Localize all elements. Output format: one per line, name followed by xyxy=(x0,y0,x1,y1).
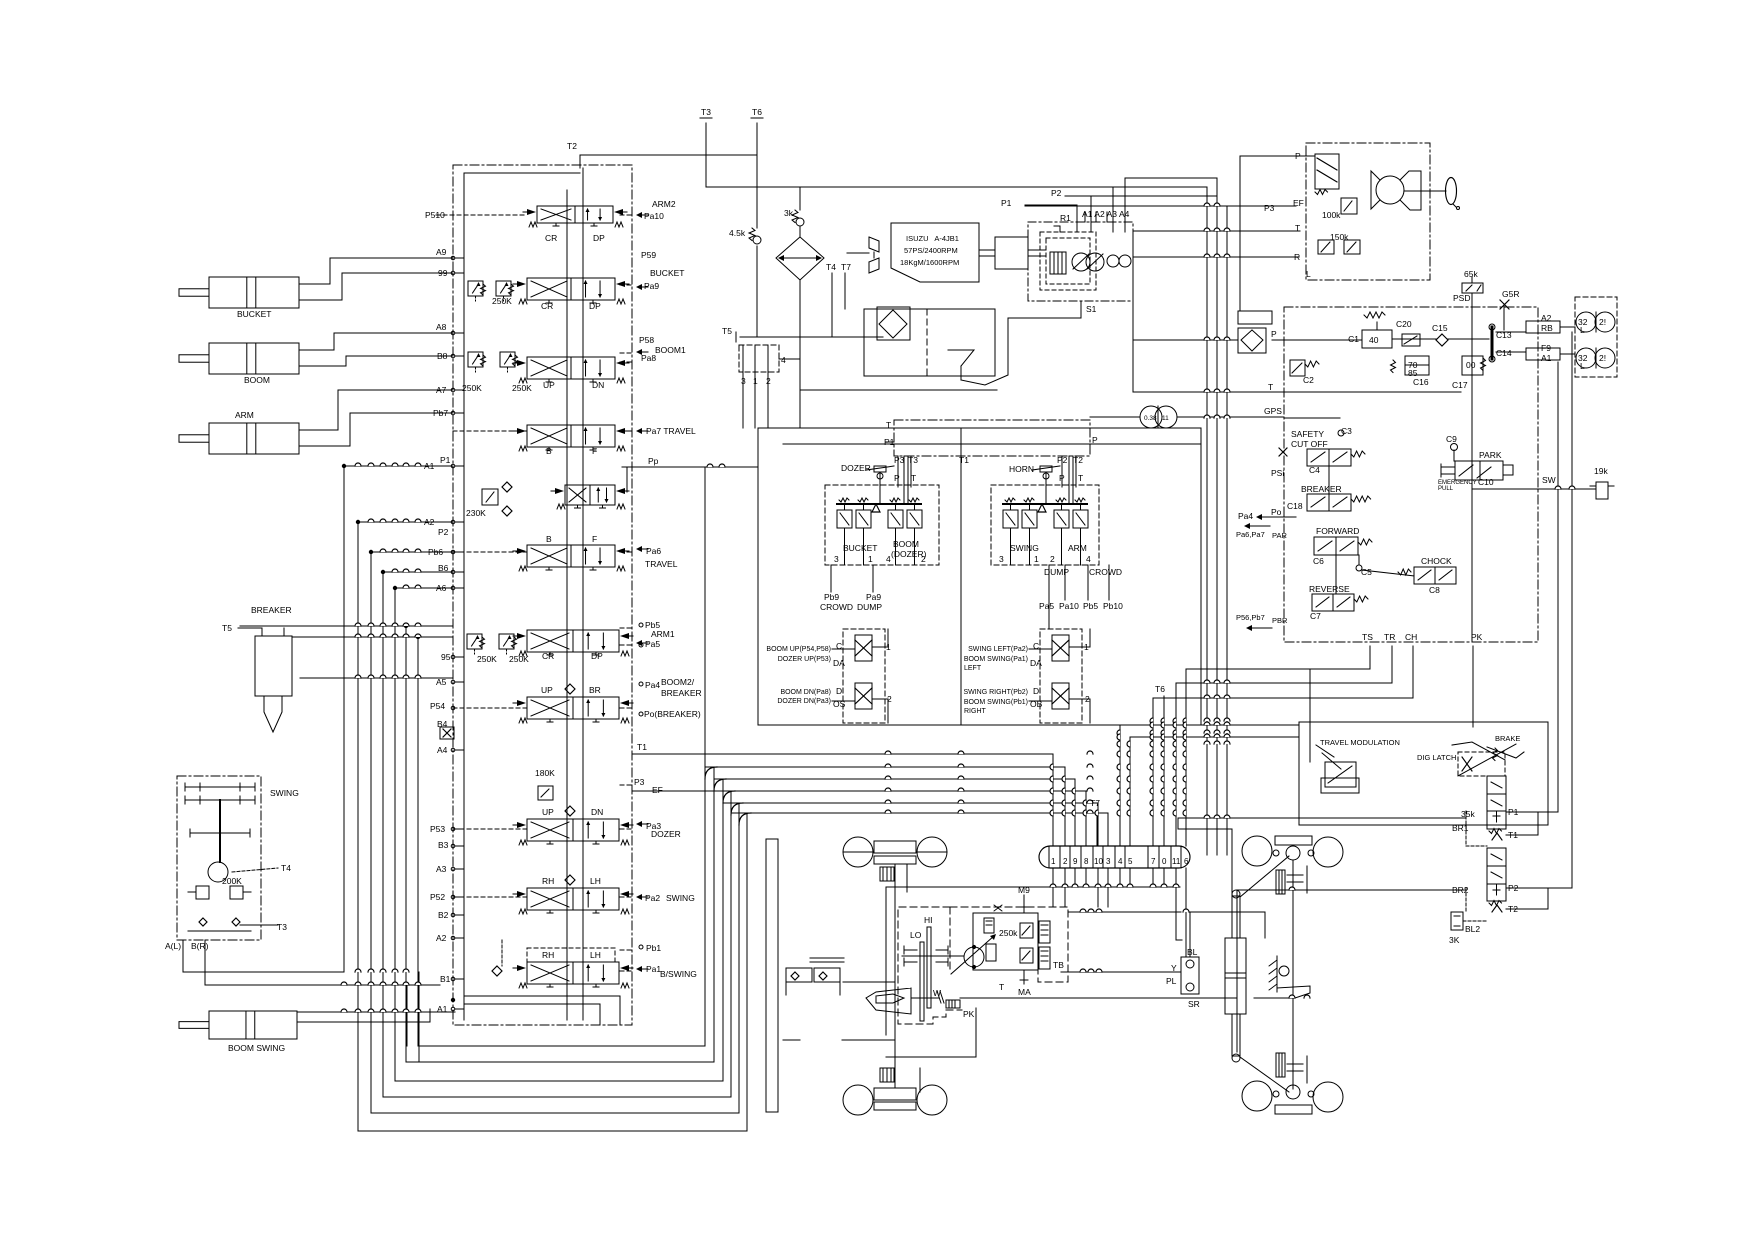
svg-text:PL: PL xyxy=(1166,976,1177,986)
rear gearbox top xyxy=(1276,870,1285,894)
svg-text:11: 11 xyxy=(1172,857,1181,866)
svg-text:Pa4: Pa4 xyxy=(645,680,660,690)
svg-text:P510: P510 xyxy=(425,210,445,220)
svg-text:Pb7: Pb7 xyxy=(433,408,448,418)
wire manifold verticals xyxy=(1472,646,1474,727)
hydraulic tank xyxy=(864,309,995,376)
svg-text:230K: 230K xyxy=(466,508,486,518)
svg-text:P54: P54 xyxy=(430,701,445,711)
wire pedal link xyxy=(843,981,895,983)
svg-text:C20: C20 xyxy=(1396,319,1412,329)
pilot valve right box xyxy=(991,485,1099,565)
wire P1 brake xyxy=(1506,811,1558,813)
svg-text:Pb6: Pb6 xyxy=(428,547,443,557)
wire GPS rail xyxy=(1284,417,1340,419)
wire PK drop xyxy=(886,1008,976,1057)
travel motor box xyxy=(1575,297,1617,377)
svg-text:B6: B6 xyxy=(438,563,449,573)
wire T7 drop xyxy=(1096,811,1098,846)
wire Pa4 arrow xyxy=(1250,525,1270,527)
wire T steering return xyxy=(1133,230,1300,232)
svg-text:P53: P53 xyxy=(430,824,445,834)
swing motor xyxy=(208,862,228,882)
wire C4-C18 link xyxy=(1328,466,1330,494)
svg-text:A1 A2 A3: A1 A2 A3 xyxy=(1082,209,1117,219)
svg-text:RIGHT: RIGHT xyxy=(964,708,987,715)
svg-text:A2: A2 xyxy=(424,517,435,527)
svg-text:C10: C10 xyxy=(1478,477,1494,487)
svg-text:2: 2 xyxy=(887,694,892,704)
svg-text:RB: RB xyxy=(1541,323,1553,333)
svg-text:T: T xyxy=(1078,473,1083,483)
svg-text:Po: Po xyxy=(1271,507,1282,517)
gauge 0.38-11 xyxy=(1140,406,1162,428)
wire PSD drop xyxy=(1471,307,1473,642)
wire BR1 to axle xyxy=(1178,818,1466,896)
svg-text:BRAKE: BRAKE xyxy=(1495,734,1520,743)
wire pump A4 lines xyxy=(1112,187,1114,232)
svg-text:T6: T6 xyxy=(752,107,762,117)
svg-text:L: L xyxy=(1580,361,1585,371)
rear axle shaft xyxy=(1292,860,1294,1089)
svg-text:CR: CR xyxy=(542,651,554,661)
svg-text:SWING LEFT(Pa2): SWING LEFT(Pa2) xyxy=(968,646,1028,653)
svg-text:C4: C4 xyxy=(1309,465,1320,475)
svg-text:A3: A3 xyxy=(436,864,447,874)
svg-text:DP: DP xyxy=(589,301,601,311)
svg-text:BREAKER: BREAKER xyxy=(251,605,292,615)
svg-text:1: 1 xyxy=(1084,642,1089,652)
joystick DOZER xyxy=(879,473,881,504)
junction dots feeders xyxy=(342,464,345,467)
gear bar LO xyxy=(920,942,924,1021)
svg-text:OB: OB xyxy=(1030,699,1043,709)
svg-text:A6: A6 xyxy=(436,583,447,593)
valve ARM2 spool xyxy=(537,206,613,223)
wire port feeders xyxy=(344,465,453,467)
svg-text:2: 2 xyxy=(1063,857,1068,866)
wire pump P1 line xyxy=(1025,205,1077,232)
svg-text:EF: EF xyxy=(652,785,663,795)
svg-text:ARM: ARM xyxy=(1068,543,1087,553)
valve BOOM-SWING spool xyxy=(527,962,619,984)
pump P1 xyxy=(1072,253,1090,271)
brake valve BR2 xyxy=(1487,848,1506,901)
svg-text:40: 40 xyxy=(1369,335,1379,345)
svg-text:T7: T7 xyxy=(841,262,851,272)
tank suction strainer xyxy=(948,350,974,366)
svg-text:CROWD: CROWD xyxy=(1089,567,1122,577)
svg-text:3: 3 xyxy=(1106,857,1111,866)
svg-text:BOOM1: BOOM1 xyxy=(655,345,686,355)
svg-text:18KgM/1600RPM: 18KgM/1600RPM xyxy=(900,258,959,267)
svg-text:C7: C7 xyxy=(1310,611,1321,621)
svg-text:4: 4 xyxy=(781,355,786,365)
valve C20 xyxy=(1402,334,1420,346)
wire trans left vertical xyxy=(885,887,887,1035)
wire manifold bottom rails xyxy=(1310,668,1370,670)
svg-text:DOZER: DOZER xyxy=(651,829,681,839)
svg-text:P1: P1 xyxy=(440,455,451,465)
svg-text:P2: P2 xyxy=(1057,455,1068,465)
svg-text:REVERSE: REVERSE xyxy=(1309,584,1350,594)
svg-text:B8: B8 xyxy=(437,351,448,361)
svg-text:C8: C8 xyxy=(1429,585,1440,595)
svg-text:Pa10: Pa10 xyxy=(644,211,664,221)
svg-text:T2: T2 xyxy=(567,141,577,151)
wire P supply xyxy=(783,443,1201,445)
rear kingpin bottom xyxy=(1286,1085,1300,1099)
svg-text:W: W xyxy=(933,988,941,998)
valve C7 reverse xyxy=(1312,594,1354,611)
wire bundle A xyxy=(632,753,1053,755)
wire bundle right rails xyxy=(1120,724,1299,726)
wire block bottom feeders xyxy=(464,996,620,1025)
wire A(L) line xyxy=(183,971,344,973)
wire pilot drops xyxy=(903,456,905,504)
svg-text:F9: F9 xyxy=(1541,343,1551,353)
svg-text:C: C xyxy=(1033,641,1039,651)
svg-text:BREAKER: BREAKER xyxy=(661,688,702,698)
wire M9 xyxy=(1023,895,1025,913)
swing gear train xyxy=(185,786,255,788)
svg-text:BR1: BR1 xyxy=(1452,823,1469,833)
svg-text:P2: P2 xyxy=(438,527,449,537)
wire A5 bus xyxy=(300,677,453,679)
svg-text:Pa9: Pa9 xyxy=(866,592,881,602)
svg-text:BOOM: BOOM xyxy=(244,375,270,385)
svg-text:250K: 250K xyxy=(462,383,482,393)
wire port stubs xyxy=(455,257,464,259)
svg-text:UP: UP xyxy=(542,807,554,817)
svg-text:BOOM SWING(Pb1): BOOM SWING(Pb1) xyxy=(964,699,1028,706)
steering control valve xyxy=(1315,154,1339,189)
svg-text:R: R xyxy=(1294,252,1300,262)
svg-text:Pa5: Pa5 xyxy=(1039,601,1054,611)
svg-text:R1: R1 xyxy=(1060,213,1071,223)
svg-text:B: B xyxy=(546,534,552,544)
svg-text:P1: P1 xyxy=(1001,198,1012,208)
svg-text:A8: A8 xyxy=(436,322,447,332)
steering link bottom xyxy=(1240,1057,1289,1092)
breaker xyxy=(255,636,292,696)
wire T rail xyxy=(1133,391,1461,393)
svg-text:S1: S1 xyxy=(1086,304,1097,314)
shuttle valve boom up xyxy=(855,635,872,661)
valve BOOM1 spools xyxy=(468,352,483,367)
svg-text:T6: T6 xyxy=(1155,684,1165,694)
svg-text:T: T xyxy=(886,420,891,430)
svg-text:T3: T3 xyxy=(701,107,711,117)
transmission box xyxy=(898,907,962,1024)
wire tank bottom xyxy=(800,389,997,391)
svg-text:Pa9: Pa9 xyxy=(644,281,659,291)
brake pedal plate xyxy=(1254,986,1310,998)
steering valves 150k xyxy=(1318,240,1334,254)
svg-text:P58: P58 xyxy=(639,335,654,345)
crossing jumps xyxy=(1050,764,1053,770)
svg-text:T7: T7 xyxy=(1090,798,1100,808)
svg-text:LH: LH xyxy=(590,950,601,960)
svg-text:CR: CR xyxy=(541,301,553,311)
svg-text:BOOM UP(P54,P58): BOOM UP(P54,P58) xyxy=(766,646,831,653)
relief 230K xyxy=(482,489,498,505)
wire C6-C7 link xyxy=(1335,555,1337,594)
svg-text:100k: 100k xyxy=(1322,210,1341,220)
svg-text:P: P xyxy=(1271,329,1277,339)
svg-text:DN: DN xyxy=(592,380,604,390)
svg-text:LEFT: LEFT xyxy=(964,665,982,672)
wire swing ports xyxy=(182,940,184,972)
svg-text:250K: 250K xyxy=(492,296,512,306)
svg-text:T5: T5 xyxy=(722,326,732,336)
svg-text:10: 10 xyxy=(1094,857,1103,866)
valve travel modulation xyxy=(1325,762,1356,787)
svg-text:T2: T2 xyxy=(1508,904,1518,914)
svg-text:B4: B4 xyxy=(437,719,448,729)
port boxes A2 RB FB A1 xyxy=(1526,321,1560,333)
svg-text:4.5k: 4.5k xyxy=(729,228,746,238)
wire connector drops xyxy=(1052,868,1054,887)
svg-text:CH: CH xyxy=(1405,632,1417,642)
svg-text:19k: 19k xyxy=(1594,466,1608,476)
svg-text:TB: TB xyxy=(1053,960,1064,970)
svg-text:P: P xyxy=(1295,151,1301,161)
svg-text:B(R): B(R) xyxy=(191,941,209,951)
shuttle box right xyxy=(1040,629,1082,723)
wire T5 xyxy=(740,336,883,338)
svg-text:C: C xyxy=(836,641,842,651)
svg-text:UP: UP xyxy=(543,380,555,390)
valve ARM1 spools xyxy=(467,634,482,649)
node C9 xyxy=(1451,444,1458,451)
svg-text:T5: T5 xyxy=(222,623,232,633)
svg-text:Pa5: Pa5 xyxy=(645,639,660,649)
svg-text:CROWD: CROWD xyxy=(820,602,853,612)
svg-text:Pb10: Pb10 xyxy=(1103,601,1123,611)
check valve 4.5k xyxy=(749,228,755,241)
svg-text:TS: TS xyxy=(1362,632,1373,642)
wire left drop xyxy=(1132,231,1134,392)
svg-text:A2: A2 xyxy=(1541,313,1552,323)
svg-text:PK: PK xyxy=(963,1009,975,1019)
svg-text:C5: C5 xyxy=(1361,567,1372,577)
rear axle bottom wheels xyxy=(1242,1081,1272,1111)
svg-text:B2: B2 xyxy=(438,910,449,920)
svg-text:250K: 250K xyxy=(477,654,497,664)
wire PBR arrow xyxy=(1252,627,1272,629)
chassis frame bar xyxy=(766,839,778,1112)
svg-text:DIG LATCH: DIG LATCH xyxy=(1417,753,1456,762)
solenoid block BL PL xyxy=(1181,957,1199,994)
svg-text:P: P xyxy=(1092,435,1098,445)
svg-text:P3: P3 xyxy=(1264,203,1275,213)
svg-text:CUT OFF: CUT OFF xyxy=(1291,439,1328,449)
wire BL link xyxy=(1190,911,1265,913)
valve C10 park xyxy=(1455,461,1503,480)
wire pilot dashed stubs right xyxy=(620,214,634,216)
svg-text:C14: C14 xyxy=(1496,348,1512,358)
wire breaker return xyxy=(292,636,453,638)
pilot outer box xyxy=(758,428,1201,725)
svg-text:Y: Y xyxy=(1171,963,1177,973)
svg-text:P1: P1 xyxy=(884,437,895,447)
svg-text:0.38: 0.38 xyxy=(1144,415,1157,422)
front bottom gearbox xyxy=(880,1068,894,1082)
svg-text:Pa10: Pa10 xyxy=(1059,601,1079,611)
svg-text:TRAVEL MODULATION: TRAVEL MODULATION xyxy=(1320,738,1400,747)
wire right bus verticals xyxy=(1206,187,1208,855)
svg-text:T4: T4 xyxy=(826,262,836,272)
svg-text:RH: RH xyxy=(542,876,554,886)
wire squiggle bus xyxy=(1044,886,1180,888)
svg-text:T4: T4 xyxy=(281,863,291,873)
wire boom swing lines xyxy=(297,1011,455,1013)
gear synchros xyxy=(904,949,917,951)
wire pump P2 line xyxy=(1065,196,1091,232)
svg-text:FORWARD: FORWARD xyxy=(1316,526,1359,536)
svg-text:A1: A1 xyxy=(1541,353,1552,363)
svg-text:BUCKET: BUCKET xyxy=(650,268,684,278)
svg-text:T2: T2 xyxy=(1073,455,1083,465)
swing motor box xyxy=(177,776,261,940)
svg-text:DUMP: DUMP xyxy=(857,602,882,612)
main control valve block outline xyxy=(453,165,632,1025)
wire M9 feed line xyxy=(1068,911,1181,913)
wire bucket cylinder lines xyxy=(299,258,453,284)
svg-text:BOOM SWING: BOOM SWING xyxy=(228,1043,285,1053)
steering wheel xyxy=(1446,178,1457,205)
svg-text:Pp: Pp xyxy=(648,456,659,466)
pump P2 xyxy=(1086,253,1104,271)
bell housing xyxy=(866,988,911,1014)
wire transmission feeds xyxy=(1052,887,1054,907)
valve BUCKET spool xyxy=(468,281,483,296)
wire B(R) line xyxy=(205,984,440,986)
svg-text:2: 2 xyxy=(1050,554,1055,564)
svg-text:G5R: G5R xyxy=(1502,289,1519,299)
svg-text:2!: 2! xyxy=(1599,317,1606,327)
svg-text:DOZER DN(Pa3): DOZER DN(Pa3) xyxy=(777,698,831,705)
svg-text:3: 3 xyxy=(741,376,746,386)
pump pistons xyxy=(1050,252,1066,274)
input shaft xyxy=(902,955,964,957)
svg-text:PSi: PSi xyxy=(1271,468,1284,478)
svg-text:ARM: ARM xyxy=(235,410,254,420)
svg-text:0: 0 xyxy=(1162,857,1167,866)
oil cooler diamond xyxy=(776,237,824,280)
svg-text:BOOM2/: BOOM2/ xyxy=(661,677,695,687)
svg-text:T1: T1 xyxy=(637,742,647,752)
valve TRAVEL-R spool xyxy=(527,425,615,447)
relief 180K xyxy=(538,786,553,800)
cylinder ARM xyxy=(209,423,299,454)
svg-text:C13: C13 xyxy=(1496,330,1512,340)
wire SR line xyxy=(960,997,1237,999)
svg-text:DOZER: DOZER xyxy=(841,463,871,473)
valve 65k xyxy=(1462,283,1483,293)
svg-text:C15: C15 xyxy=(1432,323,1448,333)
swing reliefs 200K xyxy=(196,886,209,899)
svg-text:PARK: PARK xyxy=(1479,450,1502,460)
svg-text:A4: A4 xyxy=(1119,209,1130,219)
node T6 xyxy=(756,123,758,155)
svg-text:C2: C2 xyxy=(1303,375,1314,385)
pilot valve left box xyxy=(825,485,939,565)
svg-text:Pa2: Pa2 xyxy=(645,893,660,903)
engine coupling xyxy=(979,249,995,251)
transmission motor xyxy=(964,947,984,967)
brake mount hatch xyxy=(1276,956,1278,992)
svg-text:1: 1 xyxy=(868,554,873,564)
svg-text:250k: 250k xyxy=(999,928,1018,938)
svg-text:P3: P3 xyxy=(634,777,645,787)
svg-text:11: 11 xyxy=(1162,415,1169,422)
svg-text:65k: 65k xyxy=(1464,269,1478,279)
svg-text:00: 00 xyxy=(1466,360,1476,370)
valve Pp spool xyxy=(565,485,615,505)
svg-text:3: 3 xyxy=(999,554,1004,564)
valve C1 40 xyxy=(1362,330,1392,348)
svg-text:RH: RH xyxy=(542,950,554,960)
svg-text:ISUZU A-4JB1: ISUZU A-4JB1 xyxy=(906,234,959,243)
svg-text:C9: C9 xyxy=(1446,434,1457,444)
shuttle valve boom dn xyxy=(855,683,872,709)
port ticks left edge xyxy=(451,256,455,260)
svg-text:SWING: SWING xyxy=(666,893,695,903)
svg-text:BOOM DN(Pa8): BOOM DN(Pa8) xyxy=(780,689,831,696)
P gallery xyxy=(566,190,568,1020)
pilot manifold box xyxy=(894,420,1090,456)
valve TRAVEL-L spool xyxy=(527,545,615,567)
wire SW line xyxy=(1473,488,1596,490)
svg-text:UP: UP xyxy=(541,685,553,695)
wire steering P feed xyxy=(1240,155,1315,157)
wire arm cylinder lines xyxy=(299,390,453,430)
svg-text:ARM2: ARM2 xyxy=(652,199,676,209)
svg-text:T: T xyxy=(999,982,1004,992)
gear pump A3 xyxy=(1107,255,1119,267)
valve DOZER spool xyxy=(527,819,619,841)
cylinder BOOM SWING xyxy=(209,1011,297,1039)
svg-text:A1: A1 xyxy=(424,461,435,471)
svg-text:Po(BREAKER): Po(BREAKER) xyxy=(644,709,701,719)
svg-text:P2: P2 xyxy=(1051,188,1062,198)
svg-text:HORN: HORN xyxy=(1009,464,1034,474)
svg-text:4: 4 xyxy=(1118,857,1123,866)
svg-text:250K: 250K xyxy=(509,654,529,664)
svg-text:L: L xyxy=(1306,269,1311,279)
steering link top xyxy=(1240,856,1289,897)
wire T5 breaker xyxy=(238,627,262,629)
wire boom cylinder lines xyxy=(299,333,453,350)
wire travel motor risers xyxy=(1557,362,1559,812)
svg-text:T1: T1 xyxy=(1508,830,1518,840)
wire T6 drop lower xyxy=(1163,696,1165,846)
svg-text:A7: A7 xyxy=(436,385,447,395)
wire gauge line xyxy=(1090,416,1140,418)
svg-text:DUMP: DUMP xyxy=(1044,567,1069,577)
svg-text:DP: DP xyxy=(593,233,605,243)
left pedal assembly xyxy=(786,968,812,982)
svg-text:Pa6,Pa7: Pa6,Pa7 xyxy=(1236,530,1265,539)
svg-text:SW: SW xyxy=(1542,475,1556,485)
steering unit box xyxy=(1306,143,1430,280)
svg-text:DP: DP xyxy=(591,651,603,661)
brake valve BR1 xyxy=(1487,776,1506,829)
svg-text:PK: PK xyxy=(1471,632,1483,642)
svg-text:T3: T3 xyxy=(908,455,918,465)
